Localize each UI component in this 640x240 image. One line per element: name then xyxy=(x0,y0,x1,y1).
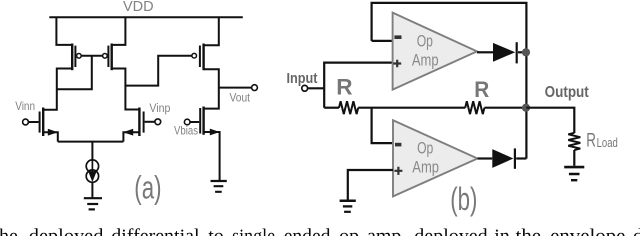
wire tail node xyxy=(58,141,124,143)
wire U1 minus input xyxy=(372,40,393,42)
resistor R2 xyxy=(465,101,484,114)
transistor M6 gate bar xyxy=(199,108,201,134)
current source I1 circle top xyxy=(86,160,98,172)
op-amp U1 body xyxy=(393,13,477,90)
wire VDD rail xyxy=(49,16,243,18)
wire first stage output to M5 gate xyxy=(125,56,191,86)
wire M4 drain down to M2 drain xyxy=(112,69,139,110)
wire diode connection gates to M3 drain xyxy=(57,56,92,90)
svg-text:hedeployeddifferentialtosingle: hedeployeddifferentialtosingleendedopamp… xyxy=(0,225,640,236)
svg-text:VDD: VDD xyxy=(123,0,154,15)
transistor M2 gate bar xyxy=(143,112,145,133)
wire U2 plus to ground xyxy=(348,170,393,200)
current source I1 arrow xyxy=(88,160,97,182)
wire input stub xyxy=(308,87,325,89)
wire M6 source to ground xyxy=(204,132,220,180)
Vbias terminal xyxy=(184,119,190,125)
wire M6 gate xyxy=(190,121,199,123)
wire M1 gate xyxy=(29,121,39,123)
svg-text:Load: Load xyxy=(597,136,618,150)
transistor M3 gate bubble xyxy=(77,54,82,59)
current source I1 circle bottom xyxy=(86,170,98,182)
wire tail to current source xyxy=(91,142,93,160)
M6 source arrow xyxy=(210,129,220,136)
wire M3 source to VDD xyxy=(56,17,71,45)
svg-text:Op: Op xyxy=(417,140,433,158)
svg-text:Vinp: Vinp xyxy=(149,103,170,115)
transistor M4 gate bar xyxy=(107,46,109,67)
svg-text:Output: Output xyxy=(545,84,589,101)
ground at U2 plus xyxy=(340,201,356,212)
wire R1 to R2 xyxy=(358,107,465,109)
svg-text:Vbias: Vbias xyxy=(174,124,198,138)
wire current source to ground xyxy=(91,182,93,197)
M1 source arrow xyxy=(48,129,58,136)
resistor RLoad xyxy=(568,133,580,150)
transistor M1 gate bar xyxy=(39,112,41,133)
ground under RLoad xyxy=(564,167,584,180)
transistor M5 gate bar xyxy=(199,46,201,68)
U2 minus sign xyxy=(395,143,401,147)
transistor M6 channel xyxy=(202,107,204,135)
transistor M4 channel xyxy=(110,44,112,71)
wire RLoad to ground xyxy=(573,150,575,166)
ground under I1 xyxy=(84,198,102,209)
svg-text:Input: Input xyxy=(287,71,318,87)
transistor M2 channel xyxy=(138,108,140,137)
wire U2 output xyxy=(478,157,493,159)
wire M4 source to VDD xyxy=(112,17,126,45)
svg-text:Vout: Vout xyxy=(230,90,251,104)
wire M3 drain down to M1 drain xyxy=(43,69,72,110)
transistor M1 channel xyxy=(42,108,44,137)
wire R node to U2 minus xyxy=(372,108,393,143)
wire M2 source xyxy=(123,132,139,141)
D2 cathode bar xyxy=(514,148,516,168)
svg-text:R: R xyxy=(474,77,489,102)
wire M1 source xyxy=(43,132,57,141)
ground under M6 xyxy=(211,181,227,192)
wire mirror gates xyxy=(81,55,102,57)
Vout terminal xyxy=(252,85,258,91)
svg-text:Vinn: Vinn xyxy=(15,99,35,113)
Vinp terminal xyxy=(155,119,161,125)
resistor R1 xyxy=(339,101,358,114)
U1 minus sign xyxy=(394,35,401,39)
svg-text:Amp: Amp xyxy=(412,159,439,177)
wire R2 to output node xyxy=(484,107,526,109)
wire Vout stub xyxy=(219,87,252,89)
wire U1 feedback loop and right rail xyxy=(372,3,527,159)
svg-text:R: R xyxy=(586,130,596,151)
wire M5 source to VDD xyxy=(204,17,219,46)
transistor M3 channel xyxy=(71,44,73,71)
svg-text:(a): (a) xyxy=(134,169,161,205)
Input terminal xyxy=(302,85,308,91)
wire U1 output xyxy=(477,51,493,53)
wire M5 drain to M6 drain xyxy=(204,69,219,108)
wire D1 to node xyxy=(518,51,526,53)
wire M2 gate xyxy=(145,121,155,123)
wire D2 to rail xyxy=(516,157,526,159)
node dot D1 junction xyxy=(522,48,530,56)
node dot output xyxy=(522,104,530,112)
diode D1 xyxy=(493,43,515,62)
M2 source arrow xyxy=(123,129,133,136)
Vinn terminal xyxy=(23,119,29,125)
U1 plus sign xyxy=(393,60,401,68)
svg-text:R: R xyxy=(336,75,352,100)
U2 plus sign xyxy=(394,167,402,175)
svg-text:Op: Op xyxy=(417,33,433,51)
transistor M5 gate bubble xyxy=(192,53,197,58)
wire input node to R1 xyxy=(324,107,339,109)
wire output node to RLoad xyxy=(526,108,574,133)
diode D2 xyxy=(492,149,513,168)
svg-text:Amp: Amp xyxy=(412,52,439,70)
svg-text:(b): (b) xyxy=(450,181,477,217)
transistor M4 gate bubble xyxy=(103,54,108,59)
op-amp U2 body xyxy=(393,120,478,196)
wire input to U1 plus xyxy=(324,63,392,108)
transistor M5 channel xyxy=(202,44,204,71)
transistor M3 gate bar xyxy=(74,46,76,67)
D1 cathode bar xyxy=(516,42,518,63)
